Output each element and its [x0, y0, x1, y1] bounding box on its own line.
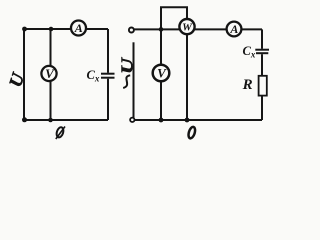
wire: circuit b right branch upper segment: [261, 29, 263, 48]
svg-text:W: W: [182, 22, 193, 34]
svg-text:V: V: [157, 65, 167, 80]
label: sub-figure mark under circuit b: [187, 126, 196, 139]
svg-text:A: A: [229, 22, 238, 36]
node: circuit a bottom-left junction: [22, 117, 27, 122]
wire: circuit b voltmeter branch: [160, 29, 162, 120]
node: circuit b top junction: [159, 27, 164, 32]
wire: wattmeter bottom lead to bottom rail: [186, 25, 188, 120]
svg-text:A: A: [74, 21, 83, 35]
node: circuit a top junction at voltmeter branch: [49, 27, 54, 32]
wire: circuit b bottom rail: [135, 119, 262, 121]
ammeter A1 (circuit a): [71, 21, 86, 36]
capacitor Cx (circuit b) top plate: [255, 49, 269, 51]
wire: circuit b resistor to bottom rail segment: [261, 96, 263, 120]
node: circuit b bottom junction at wattmeter lead: [185, 118, 190, 123]
wire: circuit a left vertical wire: [23, 28, 25, 120]
wire: circuit a top rail: [24, 28, 108, 30]
capacitor Cx (circuit a) top plate: [101, 73, 115, 75]
voltmeter V1 (circuit a): [41, 66, 56, 81]
svg-text:R: R: [242, 77, 253, 93]
wire: circuit b left supply link: [133, 42, 135, 117]
wire: wattmeter voltage-coil top bypass: [161, 7, 187, 29]
wire: circuit a right branch lower segment: [107, 79, 109, 120]
node: circuit a top-left junction: [22, 27, 27, 32]
wire: circuit b capacitor to resistor segment: [261, 54, 263, 75]
voltmeter V2 (circuit b): [153, 65, 170, 82]
node: circuit b bottom junction at voltmeter branch: [159, 118, 164, 123]
wire: circuit a bottom rail: [24, 119, 108, 121]
svg-text:V: V: [45, 66, 55, 81]
wire: circuit b top rail: [134, 28, 262, 30]
wire: circuit a voltmeter branch: [50, 29, 52, 120]
svg-text:U: U: [118, 56, 137, 74]
capacitor Cx (circuit a) bottom plate: [101, 77, 115, 79]
capacitor Cx (circuit b) bottom plate: [256, 52, 268, 54]
resistor R (circuit b): [259, 76, 267, 96]
node: circuit a bottom junction at voltmeter branch: [48, 118, 53, 123]
label: AC tilde mark (circuit b supply): [123, 75, 130, 88]
wattmeter W (circuit b): [179, 19, 194, 34]
label: sub-figure mark under circuit a: [55, 126, 65, 139]
wire: circuit a right branch upper segment: [107, 29, 109, 73]
terminal: circuit b bottom input: [130, 118, 134, 122]
ammeter A2 (circuit b): [227, 22, 242, 37]
terminal: circuit b top input: [129, 28, 134, 33]
